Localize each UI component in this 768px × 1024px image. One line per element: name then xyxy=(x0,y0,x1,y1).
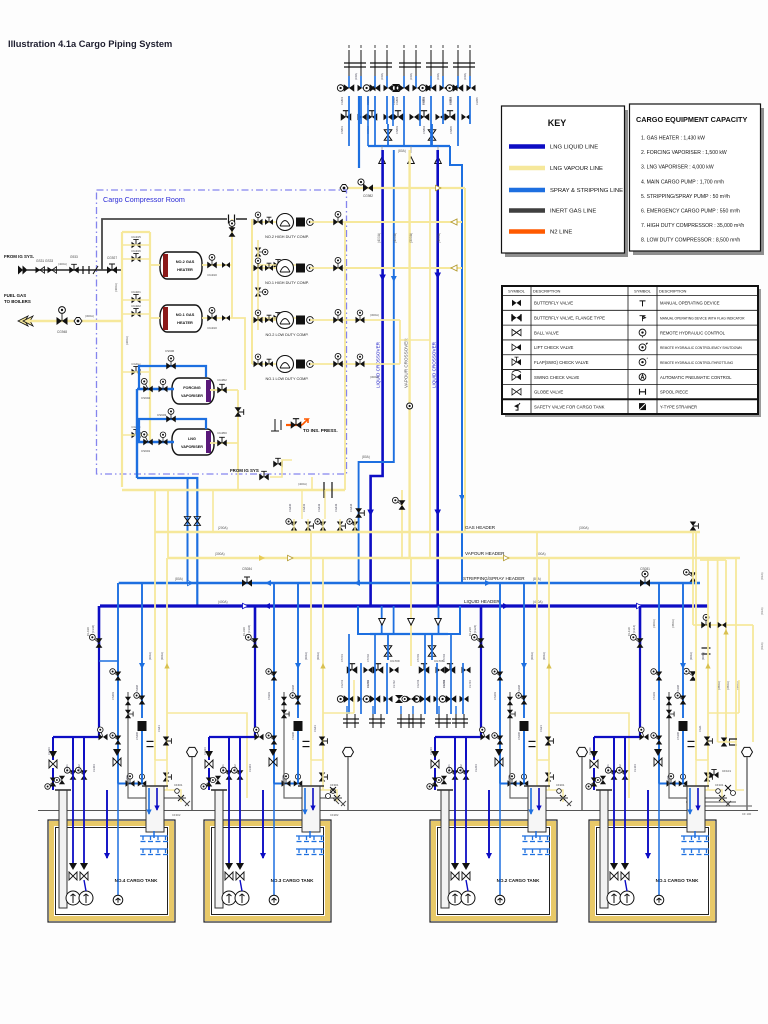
wire tank 4 pump link xyxy=(84,880,86,891)
svg-text:CG803: CG803 xyxy=(395,96,399,105)
wire tank 2 dome entry 1 xyxy=(530,788,532,814)
flow arrow tank 2 spray arrow xyxy=(521,663,527,669)
wire heater riser up xyxy=(231,219,233,265)
valve valve CS906 xyxy=(166,355,176,369)
manifold riser group 2 xyxy=(370,45,392,76)
svg-text:1. GAS HEATER : 1,430 kW: 1. GAS HEATER : 1,430 kW xyxy=(641,136,705,142)
tank 3 outer shell xyxy=(204,820,331,922)
svg-text:FLAP(SWG) CHECK VALVE: FLAP(SWG) CHECK VALVE xyxy=(534,360,589,365)
wire spray feed bus xyxy=(136,389,138,478)
reducer on vapour crossover xyxy=(407,403,413,409)
valve CS203 xyxy=(492,669,503,681)
table sym manual device xyxy=(640,301,646,307)
wire NO.1 LOW DUTY COMP. suction xyxy=(252,363,276,365)
svg-text:CF401: CF401 xyxy=(174,783,183,787)
wire tank 4 dome entry 1 xyxy=(148,788,150,814)
valve CL310 xyxy=(245,634,258,647)
manifold riser group 4 xyxy=(426,45,448,76)
svg-text:GLOBE VALVE: GLOBE VALVE xyxy=(534,390,563,395)
svg-text:CS208: CS208 xyxy=(517,685,521,693)
valve tank 4 relief valve b xyxy=(125,710,133,719)
pump tank 4 main cargo pump 2 xyxy=(79,891,93,905)
flow arrow tank 1 dome entry arrow 2 xyxy=(695,806,700,811)
wire tank 1 spray drop2 xyxy=(682,583,684,718)
valve valve CS081 xyxy=(640,571,650,587)
svg-text:CS203: CS203 xyxy=(493,692,497,700)
valve CL102 xyxy=(616,767,628,779)
valve CG301 xyxy=(319,737,328,746)
foot valve tank 1 foot valve 1 xyxy=(610,863,618,880)
svg-text:CG948: CG948 xyxy=(57,330,67,334)
svg-text:CARGO EQUIPMENT CAPACITY: CARGO EQUIPMENT CAPACITY xyxy=(636,115,747,124)
valve CS408 xyxy=(134,693,145,705)
valve NO.2 HIGH DUTY COMP. discharge valve xyxy=(333,211,343,225)
wire vaporiser outlet bus xyxy=(237,390,239,490)
wire tank 4 vap drop2 xyxy=(166,558,168,760)
svg-text:HEATER: HEATER xyxy=(177,320,193,325)
wire tank 1 relief line xyxy=(669,692,727,798)
tank 3 pump well cap xyxy=(211,789,227,791)
valve CL412 xyxy=(98,727,108,740)
table sym remote hyd throttle xyxy=(639,356,648,365)
valve CS104 xyxy=(667,774,676,787)
wire tank 3 dome entry 1 xyxy=(304,788,306,814)
wire mid spool link 3 xyxy=(400,706,402,714)
flow arrow tank 3 fill arrow xyxy=(260,853,266,859)
svg-text:6. EMERGENCY CARGO PUMP : 550: 6. EMERGENCY CARGO PUMP : 550 m³/h xyxy=(641,209,740,215)
svg-text:FORCING: FORCING xyxy=(183,386,201,390)
valve manifold V41 xyxy=(419,84,436,92)
spool piece tank 3 vap spool xyxy=(303,741,310,746)
table sym butterfly xyxy=(512,300,521,306)
wire tank 3 liq branch 5 xyxy=(208,737,210,760)
wire manifold inter a1 xyxy=(348,96,350,146)
valve CG302 xyxy=(319,773,328,782)
valve valve on spray drop xyxy=(355,508,364,518)
svg-text:CF101: CF101 xyxy=(715,783,724,787)
wire tank 2 liq into tank C xyxy=(465,760,467,866)
wire manifold link a xyxy=(387,124,389,146)
wire gh link xyxy=(258,264,300,266)
wire tank 4 fill drop xyxy=(106,790,108,858)
valve mid W11 xyxy=(347,664,358,674)
valve manifold V12 xyxy=(358,85,367,91)
open arrow manifold vent 3 xyxy=(435,157,442,164)
tank 1 outer shell xyxy=(589,820,716,922)
wire tank 4 vap to CF xyxy=(155,760,181,802)
wire mid inter a2 xyxy=(374,634,376,714)
tank 1 spray nozzles xyxy=(681,836,709,855)
svg-text:CS306: CS306 xyxy=(291,732,295,740)
wire gas hdr stub 294 xyxy=(293,519,295,532)
wire right vap down 736 xyxy=(735,558,737,742)
tank 2 pump well xyxy=(441,790,449,908)
foot valve CL113 xyxy=(590,751,598,768)
svg-text:REMOTE HYDRAULIC CONTROL: REMOTE HYDRAULIC CONTROL xyxy=(660,330,726,335)
wire tank 3 liq into tank A xyxy=(208,768,210,790)
svg-text:SAFETY VALVE FOR CARGO TANK: SAFETY VALVE FOR CARGO TANK xyxy=(534,404,605,409)
svg-text:(REA): (REA) xyxy=(760,572,764,580)
open arrow mid vent 2 xyxy=(408,619,415,626)
valve NO.1 LOW DUTY COMP. suction valve b xyxy=(265,359,273,367)
tank 2 outer shell xyxy=(430,820,557,922)
valve manifold V52 xyxy=(467,85,476,91)
valve ball CS087 xyxy=(184,517,190,526)
svg-text:Illustration 4.1a Cargo Piping: Illustration 4.1a Cargo Piping System xyxy=(8,39,172,49)
svg-text:(200A): (200A) xyxy=(381,73,384,80)
valve manifold W31 xyxy=(393,111,404,121)
wire manifold drop 1a xyxy=(348,76,350,88)
foot valve CS413 xyxy=(113,749,121,766)
svg-text:TO BOILERS: TO BOILERS xyxy=(4,299,31,304)
wire tank 2 spray drop xyxy=(499,583,501,784)
flow arrow tank 3 dome entry arrow 2 xyxy=(310,806,315,811)
wire tank 1 vap stub xyxy=(738,680,740,713)
deck line xyxy=(38,810,758,812)
valve tank 3 relief valve b xyxy=(281,710,289,719)
wire manifold left leg xyxy=(358,146,360,168)
vent hexagon tank 1 vent hex xyxy=(742,747,753,756)
svg-text:CS106: CS106 xyxy=(676,732,680,740)
valve ball valve CG807 xyxy=(384,130,392,141)
wire NO.2 HIGH DUTY COMP. suction xyxy=(252,221,276,223)
wire tank 1 vap drop xyxy=(695,532,697,760)
valve CG201 xyxy=(545,737,554,746)
svg-text:CS801: CS801 xyxy=(340,126,344,134)
foot valve CS113 xyxy=(654,749,662,766)
mid spool group 4 xyxy=(409,714,425,728)
flow arrow tank 2 fill arrow xyxy=(486,853,492,859)
wire tank 3 spray drop2b xyxy=(297,731,299,784)
wire heater NO.2 GAS HEATER outlet xyxy=(202,264,232,266)
table sym flap check xyxy=(512,357,521,365)
wire manifold drop 2a xyxy=(374,76,376,88)
svg-text:DESCRIPTION: DESCRIPTION xyxy=(533,289,560,294)
svg-text:CS901: CS901 xyxy=(141,449,151,453)
valve valve G933 xyxy=(69,264,79,273)
tank 2 dome cap xyxy=(524,785,550,787)
flow arrow liquid crossover stbd arrow xyxy=(434,273,441,280)
valve CS205 xyxy=(520,774,529,786)
valve mid W42 xyxy=(462,667,471,673)
wire tank 4 liq into tank A xyxy=(52,768,54,790)
wire spray bottom run xyxy=(137,478,197,607)
right small cluster xyxy=(725,785,736,796)
svg-text:VAPOUR HEADER: VAPOUR HEADER xyxy=(465,551,505,556)
svg-text:CG704: CG704 xyxy=(442,679,446,688)
svg-text:(400A): (400A) xyxy=(114,283,118,292)
foot valve CS313 xyxy=(269,749,277,766)
valve CS208 xyxy=(516,693,527,705)
wire FV inlet xyxy=(137,388,174,390)
wire spray bottom branch xyxy=(187,478,189,583)
wire manifold inter a2 xyxy=(374,96,376,146)
wire tank 1 vap into dome xyxy=(696,760,708,790)
wire manifold inter a5 xyxy=(457,96,459,146)
wire manifold link b xyxy=(431,124,433,146)
valve CS405 xyxy=(138,774,147,786)
wire manifold drop 3b xyxy=(415,76,417,88)
svg-text:CL410: CL410 xyxy=(86,627,90,636)
svg-text:INERT GAS LINE: INERT GAS LINE xyxy=(550,209,596,215)
svg-text:CS103: CS103 xyxy=(652,692,656,700)
wire tank 1 vap jog xyxy=(708,712,739,714)
pump tank 3 stripping pump xyxy=(269,895,279,905)
svg-text:SPOOL PIECE: SPOOL PIECE xyxy=(660,390,688,395)
valve valve CG824 xyxy=(229,221,236,237)
wire manifold inter b2 xyxy=(386,96,388,124)
svg-text:CF282: CF282 xyxy=(330,813,339,817)
svg-text:CL702: CL702 xyxy=(392,680,396,688)
wire right deck pipes2 xyxy=(686,801,736,803)
svg-text:SPRAY & STRIPPING LINE: SPRAY & STRIPPING LINE xyxy=(550,188,623,194)
svg-text:GS31 GS33: GS31 GS33 xyxy=(36,259,53,263)
table sym spool xyxy=(640,389,646,395)
svg-text:CS084: CS084 xyxy=(242,567,252,571)
key box xyxy=(502,106,625,253)
flow arrow tank 1 fill arrow xyxy=(645,853,651,859)
flow arrow spray hdr arrow2 xyxy=(485,580,491,586)
wire IG inlet line xyxy=(27,269,122,271)
valve CG102 xyxy=(704,773,713,782)
svg-text:CG708: CG708 xyxy=(434,659,444,663)
svg-text:CF301: CF301 xyxy=(330,783,339,787)
wire manifold inter a4 xyxy=(430,96,432,146)
wire tank 4 vap into dome xyxy=(155,760,167,790)
svg-text:CS803: CS803 xyxy=(395,126,399,134)
valve NO.2 LOW DUTY COMP. discharge valve xyxy=(333,309,343,323)
wire mid collector xyxy=(370,633,448,635)
wire right gas drop xyxy=(692,532,694,625)
svg-text:(350A): (350A) xyxy=(717,681,721,690)
flow arrow liq hdr arrow2 xyxy=(503,603,509,609)
wire IG bottom drop xyxy=(311,477,313,490)
wire tank 4 liquid drop xyxy=(98,606,101,648)
valve mid center valve xyxy=(402,696,416,702)
svg-text:VAPOUR CROSSOVER: VAPOUR CROSSOVER xyxy=(404,338,409,388)
wire right vap down 753 xyxy=(752,625,754,742)
valve manifold V11 xyxy=(337,84,354,92)
svg-text:(CL44): (CL44) xyxy=(91,625,95,633)
svg-text:CS308: CS308 xyxy=(291,685,295,693)
svg-text:CS703: CS703 xyxy=(416,654,420,662)
wire liquid header xyxy=(100,604,708,607)
wire liquid crossover stbd xyxy=(436,150,439,606)
wire LD riser xyxy=(399,320,401,364)
svg-text:(400A): (400A) xyxy=(393,233,397,243)
svg-text:CF302: CF302 xyxy=(172,813,181,817)
svg-text:CL201: CL201 xyxy=(447,764,451,772)
tank 3 insulation xyxy=(208,824,328,919)
wire tank 4 vap drop xyxy=(154,532,156,760)
wire gas hdr stub 323 xyxy=(322,519,324,532)
wire bus link CG921 xyxy=(122,299,150,301)
valve gas hdr valve 308 xyxy=(305,522,314,531)
valve valve IG2a xyxy=(259,471,269,480)
svg-text:(300A): (300A) xyxy=(148,652,152,660)
tank 4 vapour dome xyxy=(146,786,164,832)
valve mid W31 xyxy=(419,664,430,674)
foot valve tank 3 foot valve 1 xyxy=(225,863,233,880)
valve mid W32 xyxy=(436,667,445,673)
tank 4 pump well cap xyxy=(55,789,71,791)
svg-text:DESCRIPTION: DESCRIPTION xyxy=(659,289,686,294)
valve valve CG927 xyxy=(107,264,117,274)
valve manifold V51 xyxy=(446,84,463,92)
valve manifold V21 xyxy=(363,84,380,92)
svg-text:CG440: CG440 xyxy=(288,503,292,512)
wire tank 2 vap jog xyxy=(549,713,629,798)
spool piece IG spool xyxy=(83,266,89,274)
valve CS308 xyxy=(290,693,301,705)
svg-text:CG21: CG21 xyxy=(539,725,543,732)
valve valve CS902 xyxy=(159,432,168,445)
svg-text:CF201: CF201 xyxy=(556,783,565,787)
valve CL101 xyxy=(605,767,617,779)
svg-text:(CL34): (CL34) xyxy=(247,625,251,633)
svg-text:CL413: CL413 xyxy=(47,747,51,755)
valve CS403 xyxy=(110,669,121,681)
flow arrow tank 4 spray arrow xyxy=(139,663,145,669)
wire vap out LV xyxy=(210,442,238,444)
valve CL401 xyxy=(64,767,76,779)
wire vapour link top xyxy=(340,187,465,189)
wire gas row riser a xyxy=(301,490,303,519)
wire gas header riser 213 xyxy=(212,490,214,532)
wire vapour bus B xyxy=(149,232,151,440)
svg-text:CG701: CG701 xyxy=(340,679,344,688)
valve valve CG9yy xyxy=(132,430,141,439)
foot valve CL413 xyxy=(49,751,57,768)
wire manifold inter b1 xyxy=(360,96,362,124)
flow arrow tank 4 dome entry arrow 2 xyxy=(154,806,159,811)
valve valve CG866 xyxy=(683,668,696,680)
svg-text:(80A): (80A) xyxy=(362,455,370,459)
valve gas hdr valve 323 xyxy=(315,519,326,531)
wire tank 1 liquid run xyxy=(594,648,640,737)
pump tank 2 stripping pump xyxy=(495,895,505,905)
valve manifold V33 xyxy=(422,85,431,91)
valve tank 2 relief valve a xyxy=(507,697,513,706)
wire bus link CG9xx xyxy=(122,371,150,373)
tank 2 pump well cap xyxy=(437,789,453,791)
wire right vap down 726 xyxy=(725,560,727,742)
wire tank 1 liq branch 36 xyxy=(624,737,626,760)
svg-text:CS804: CS804 xyxy=(422,126,426,134)
valve valve GS31 xyxy=(36,267,45,273)
vent hexagon tank 3 vent hex xyxy=(343,747,354,756)
svg-text:(450A): (450A) xyxy=(671,619,675,628)
wire NO.1 HIGH DUTY COMP. discharge xyxy=(310,267,345,269)
valve valve CG823 xyxy=(255,288,268,297)
table sym safety valve xyxy=(514,403,520,410)
pump tank 3 main cargo pump 2 xyxy=(235,891,249,905)
svg-text:CG801: CG801 xyxy=(340,96,344,105)
flow arrow tank 1 spray arrow xyxy=(680,663,686,669)
wire gas header xyxy=(155,531,700,533)
wire tank 4 relief line xyxy=(128,692,186,798)
svg-text:(80A): (80A) xyxy=(398,149,406,153)
svg-text:NO.2 CARGO TANK: NO.2 CARGO TANK xyxy=(497,878,540,883)
wire manifold riser blue 3 xyxy=(419,96,421,126)
wire tank 3 vap to CF xyxy=(311,760,337,802)
svg-text:NO.3 CARGO TANK: NO.3 CARGO TANK xyxy=(271,878,314,883)
svg-text:CS206: CS206 xyxy=(517,732,521,740)
valve manifold V32 xyxy=(413,85,422,91)
wire tank 2 liquid run xyxy=(435,648,481,737)
foot valve CL213 xyxy=(431,751,439,768)
svg-text:CS903: CS903 xyxy=(157,413,167,417)
svg-text:NO.2 GAS: NO.2 GAS xyxy=(176,259,195,264)
flow arrow tank 3 vap arrow xyxy=(320,663,325,668)
wire fuel gas line xyxy=(28,320,122,322)
valve CS406v xyxy=(110,733,121,745)
valve CL214 xyxy=(436,776,447,785)
valve NO.1 HIGH DUTY COMP. suction valve b xyxy=(265,263,273,271)
wire mid spool link 2 xyxy=(372,706,374,714)
wire tank 2 spray run xyxy=(500,783,528,785)
svg-text:CG916: CG916 xyxy=(131,249,141,253)
valve CS108 xyxy=(675,693,686,705)
valve gas hdr valve 355 xyxy=(347,519,358,531)
valve ball valve CG806 xyxy=(428,130,436,141)
svg-text:(REA): (REA) xyxy=(760,642,764,650)
wire tank 1 spray drop xyxy=(658,583,660,784)
heater NO.2 GAS HEATER xyxy=(160,252,202,279)
foot valve tank 2 foot valve 2 xyxy=(462,863,470,880)
wire mid inter b2 xyxy=(386,663,388,714)
wire NO.2 LOW DUTY COMP. suction xyxy=(252,319,276,321)
key swatch N2 LINE xyxy=(509,229,545,233)
compressor NO.2 HIGH DUTY COMP. xyxy=(277,214,314,231)
valve CS105 xyxy=(679,774,688,786)
valve valve CG921 xyxy=(132,295,141,304)
wire tank 1 dome feed xyxy=(694,831,696,838)
svg-text:CG910: CG910 xyxy=(207,326,217,330)
key swatch SPRAY &amp; STRIPPING LINE xyxy=(509,188,545,192)
svg-text:CG922: CG922 xyxy=(131,304,141,308)
wire LV top loop xyxy=(139,419,206,442)
valve CS103 xyxy=(651,669,662,681)
valve mid W41 xyxy=(445,664,456,674)
wire tank 2 liquid drop xyxy=(480,606,483,648)
svg-text:4. MAIN CARGO PUMP : 1,700 m³/: 4. MAIN CARGO PUMP : 1,700 m³/h xyxy=(641,179,724,185)
svg-text:CS906: CS906 xyxy=(165,349,175,353)
svg-text:(300A): (300A) xyxy=(370,313,379,317)
wire bus link CG916 xyxy=(122,258,150,260)
wire tank 3 spray drop2 xyxy=(297,583,299,718)
flow arrow liquid crossover stbd arrow2 xyxy=(434,510,441,517)
svg-text:CS211: CS211 xyxy=(507,775,511,783)
wire spray header xyxy=(119,582,700,584)
fuel gas arrow xyxy=(18,316,33,326)
wire NO.2 LOW DUTY COMP. discharge xyxy=(310,319,345,321)
valve mid V21 xyxy=(363,695,380,703)
tank 4 pump well xyxy=(59,790,67,908)
svg-text:HEATER: HEATER xyxy=(177,267,193,272)
vent hexagon tank 2 vent hex xyxy=(577,747,588,756)
svg-text:CG444: CG444 xyxy=(349,503,353,512)
wire mid ball link b xyxy=(431,634,433,660)
wire tank 2 liq branch 25 xyxy=(454,737,456,760)
valve mid W21 xyxy=(373,664,384,674)
valve mid W22 xyxy=(390,667,399,673)
wire tank 4 dome feed xyxy=(153,831,155,838)
svg-text:BALL VALVE: BALL VALVE xyxy=(534,330,559,335)
wire compressor suction bus xyxy=(251,219,253,364)
valve valve CS901 xyxy=(141,431,152,445)
valve mid V11 xyxy=(337,695,354,703)
